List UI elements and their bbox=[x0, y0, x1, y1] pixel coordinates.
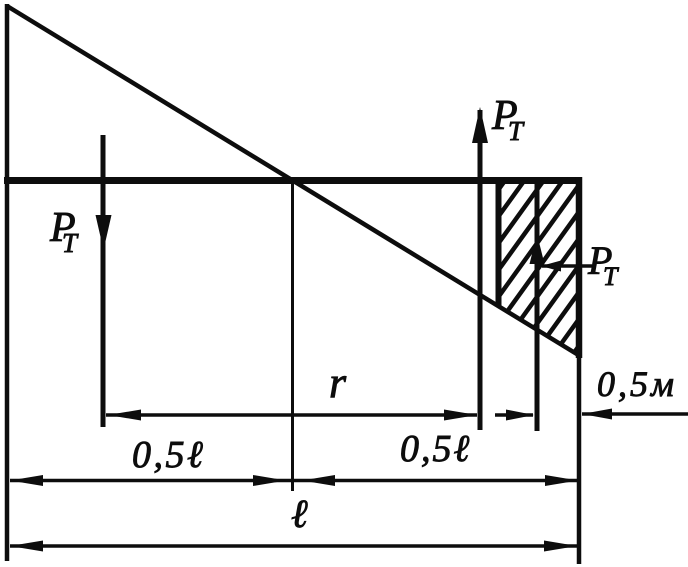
hatched area bbox=[370, 175, 688, 368]
hatch right border bbox=[576, 177, 583, 358]
svg-text:0,5ℓ: 0,5ℓ bbox=[132, 434, 205, 476]
svg-text:0,5ℓ: 0,5ℓ bbox=[400, 428, 471, 470]
dimension line 0,5 l (right) bbox=[302, 475, 578, 486]
dimension line 0,5 l (left) bbox=[10, 475, 302, 486]
beam horizontal line bbox=[4, 177, 582, 184]
force arrow P_T up (in hatch) bbox=[530, 182, 545, 431]
centre extension line bbox=[291, 181, 294, 491]
diagonal load line bbox=[7, 6, 580, 356]
svg-text:ℓ: ℓ bbox=[291, 491, 308, 536]
svg-text:T: T bbox=[603, 262, 619, 291]
hatch left border bbox=[496, 177, 502, 307]
svg-text:T: T bbox=[508, 116, 525, 146]
force arrow P_T down (left) bbox=[96, 135, 112, 427]
dimension 0,5 м arrow bbox=[582, 409, 688, 420]
dimension line l bbox=[10, 541, 577, 552]
leader arrow to P_T label bbox=[541, 261, 592, 272]
force arrow P_T up (at r) bbox=[472, 107, 488, 430]
svg-text:T: T bbox=[62, 228, 79, 258]
left vertical wall line bbox=[5, 4, 10, 561]
dimension segment to second force bbox=[495, 410, 534, 421]
svg-text:0,5м: 0,5м bbox=[597, 364, 677, 404]
svg-text:r: r bbox=[329, 358, 347, 407]
dimension line r bbox=[106, 410, 477, 421]
right end extension line bbox=[577, 356, 582, 564]
